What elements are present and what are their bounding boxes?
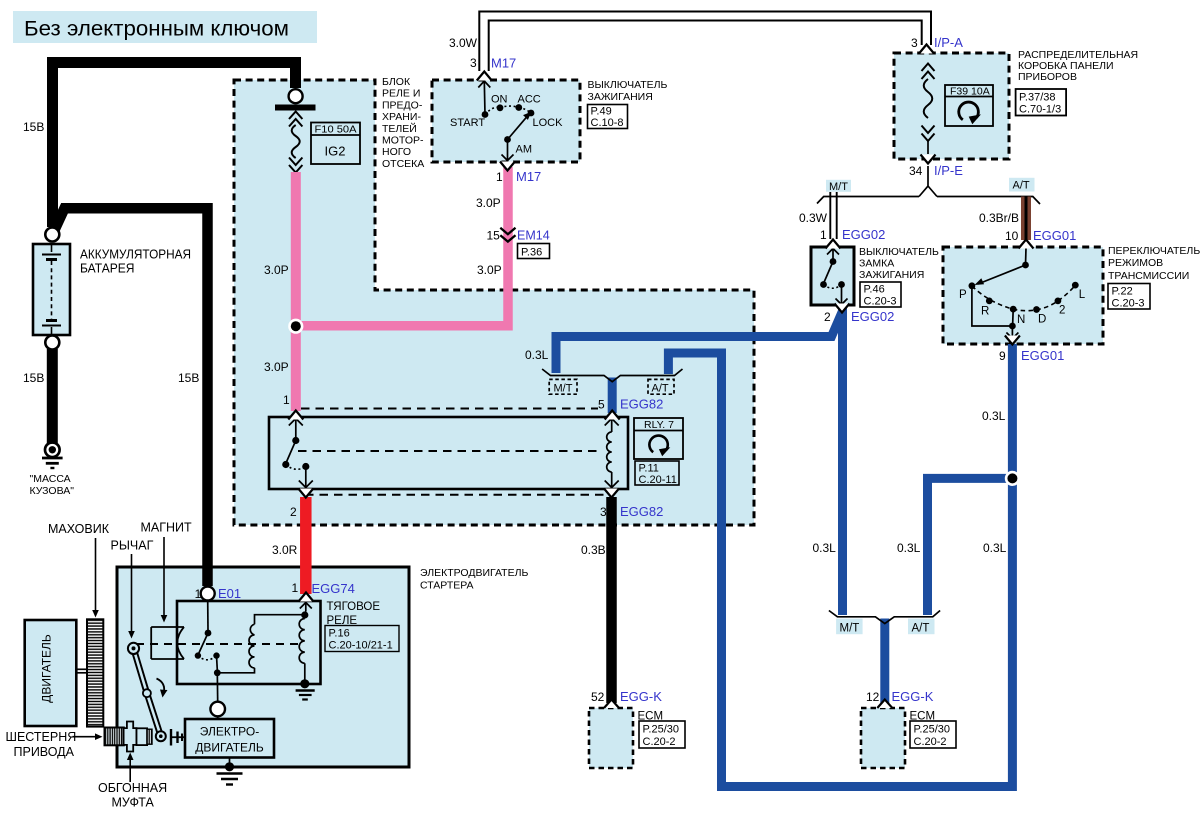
svg-text:МАХОВИК: МАХОВИК xyxy=(48,522,110,536)
battery АККУМУЛЯТОРНАЯ БАТАРЕЯ xyxy=(33,244,70,335)
body ground "МАССА КУЗОВА" xyxy=(30,443,75,498)
svg-text:ТЕЛЕЙ: ТЕЛЕЙ xyxy=(382,122,417,135)
svg-text:I/P-A: I/P-A xyxy=(934,35,963,50)
EGG82 relay switch xyxy=(282,419,313,488)
wire 0.3L fork to EGG82 pin 5 (blue) xyxy=(608,378,617,414)
pin 2 EGG82 label xyxy=(290,505,297,519)
svg-text:10: 10 xyxy=(1005,229,1019,243)
svg-text:C.20-10/21-1: C.20-10/21-1 xyxy=(329,640,393,652)
0.3W label xyxy=(799,211,828,225)
svg-text:0.3L: 0.3L xyxy=(813,541,837,555)
wire 0.3L EGG02 pin2 down to M/T fork (blue) xyxy=(838,308,847,615)
connector chevron I/P-A xyxy=(919,45,934,54)
pinion shaft yoke xyxy=(171,729,186,746)
svg-text:СТАРТЕРА: СТАРТЕРА xyxy=(420,580,474,592)
svg-text:C.70-1/3: C.70-1/3 xyxy=(1019,104,1061,116)
ignition lock switch box EGG02 (solid) xyxy=(811,247,854,305)
M/T option tag (lower) xyxy=(836,619,863,635)
connector chevron EGG02 pin2 xyxy=(835,304,850,313)
connector chevron M17 pin1 xyxy=(500,162,515,171)
svg-text:C.20-11: C.20-11 xyxy=(639,474,677,486)
svg-text:15В: 15В xyxy=(23,371,44,385)
EGG82 relay coil xyxy=(605,419,619,488)
connector chevron EGG82 pin1 xyxy=(288,411,303,420)
wire 0.3L junction to A/T fork (blue) xyxy=(885,478,1013,703)
svg-text:M17: M17 xyxy=(516,169,541,184)
junction node 0.3L xyxy=(1005,471,1020,486)
svg-text:ЭЛЕКТРО-: ЭЛЕКТРО- xyxy=(200,725,260,739)
svg-text:Без электронным ключом: Без электронным ключом xyxy=(24,17,289,41)
ignition switch ref box P.49 C.10-8 xyxy=(588,105,628,130)
svg-text:3: 3 xyxy=(911,36,918,50)
svg-text:A/T: A/T xyxy=(1013,180,1030,192)
svg-text:РЕЛЕ И: РЕЛЕ И xyxy=(382,88,420,100)
0.3B label xyxy=(581,543,606,557)
ignition switch label xyxy=(588,79,668,103)
ECM ref box left P.25/30 C.20-2 xyxy=(639,721,685,748)
pin 34 I/P-E label xyxy=(909,163,963,178)
svg-text:ДВИГАТЕЛЬ: ДВИГАТЕЛЬ xyxy=(40,634,54,703)
svg-text:3: 3 xyxy=(600,505,607,519)
wire 3.0R EGG82 pin2 to starter EGG74 (red) xyxy=(300,497,312,594)
svg-text:E01: E01 xyxy=(218,586,241,601)
ECM label right xyxy=(910,711,936,723)
flywheel МАХОВИК (ring gear) xyxy=(87,619,103,726)
svg-text:ПЕРЕКЛЮЧАТЕЛЬ: ПЕРЕКЛЮЧАТЕЛЬ xyxy=(1108,245,1200,257)
svg-text:ЗАЖИГАНИЯ: ЗАЖИГАНИЯ xyxy=(859,269,924,281)
svg-text:3.0P: 3.0P xyxy=(264,263,289,277)
svg-text:C.20-3: C.20-3 xyxy=(1112,298,1145,310)
svg-text:2: 2 xyxy=(1059,305,1065,317)
starter relay box EGG82 (solid) xyxy=(269,417,628,489)
EGG02 ref box P.46 C.20-3 xyxy=(860,282,901,308)
svg-text:15: 15 xyxy=(487,229,501,243)
ECM box left (dashed) xyxy=(589,708,633,768)
fork above EGG82 pin 5 (thin) xyxy=(542,369,682,382)
svg-text:1: 1 xyxy=(820,228,827,242)
3.0P wire labels xyxy=(264,196,502,374)
svg-text:БЛОК: БЛОК xyxy=(382,76,411,88)
svg-text:D: D xyxy=(1038,314,1046,326)
svg-text:M/T: M/T xyxy=(840,623,860,635)
svg-text:F39 10A: F39 10A xyxy=(950,86,990,98)
I/P junction box fusible link F39 xyxy=(922,64,935,155)
EGG01 label xyxy=(1108,245,1200,282)
connector EM14 (inline, double chevron) xyxy=(500,228,515,242)
instrument panel junction box I/P (dashed) xyxy=(894,53,1009,159)
svg-text:3.0P: 3.0P xyxy=(476,196,501,210)
svg-text:M/T: M/T xyxy=(829,181,848,193)
solenoid ground xyxy=(296,679,315,699)
svg-text:МАГНИТ: МАГНИТ xyxy=(141,521,193,535)
svg-text:EM14: EM14 xyxy=(517,229,550,243)
svg-text:1: 1 xyxy=(496,170,503,184)
svg-text:РЫЧАГ: РЫЧАГ xyxy=(111,539,154,553)
fuse F39 10A label box with breaker symbol xyxy=(945,85,993,126)
wire 0.3L EGG02 pin2 branch to EGG82 M/T connector (blue) xyxy=(556,311,843,373)
ОБГОННАЯ МУФТА label with leader xyxy=(98,753,167,810)
drive pinion ШЕСТЕРНЯ ПРИВОДА xyxy=(105,728,124,746)
engine box ДВИГАТЕЛЬ xyxy=(25,620,77,726)
svg-text:12: 12 xyxy=(866,690,880,704)
МАГНИТ label with leader xyxy=(141,521,193,623)
svg-text:EGG-K: EGG-K xyxy=(620,689,662,704)
svg-text:ТЯГОВОЕ: ТЯГОВОЕ xyxy=(327,601,381,613)
pin 3 I/P-A label xyxy=(911,35,963,50)
svg-text:34: 34 xyxy=(909,164,923,178)
pin 12 EGG-K label xyxy=(866,689,934,704)
I/P ref box P.37/38 C.70-1/3 xyxy=(1016,89,1067,116)
3.0R label xyxy=(272,543,298,557)
EM14 ref box P.36 xyxy=(518,244,550,259)
svg-text:9: 9 xyxy=(999,349,1006,363)
wire I/P-E fork to M/T and A/T (thin) xyxy=(817,166,1040,204)
wire battery positive to fuse F10 (15В) xyxy=(53,63,296,228)
svg-text:P.25/30: P.25/30 xyxy=(643,724,680,736)
svg-text:ВЫКЛЮЧАТЕЛЬ: ВЫКЛЮЧАТЕЛЬ xyxy=(859,246,939,258)
svg-text:RLY. 7: RLY. 7 xyxy=(644,419,674,431)
ignition switch box (dashed) xyxy=(432,80,580,162)
pin 2 EGG02 label xyxy=(824,309,894,324)
svg-text:0.3L: 0.3L xyxy=(897,541,921,555)
battery label xyxy=(80,247,191,276)
svg-text:EGG02: EGG02 xyxy=(842,227,885,242)
svg-text:C.20-2: C.20-2 xyxy=(914,736,947,748)
svg-text:EGG74: EGG74 xyxy=(312,581,355,596)
EGG82 ref box P.11 C.20-11 xyxy=(635,461,679,486)
svg-text:EGG01: EGG01 xyxy=(1021,348,1064,363)
solenoid pull-in coil xyxy=(217,615,304,673)
pin 1 E01 label xyxy=(195,586,242,601)
svg-text:ЗАЖИГАНИЯ: ЗАЖИГАНИЯ xyxy=(588,91,653,103)
svg-text:P.11: P.11 xyxy=(639,463,659,475)
title bar "Без электронным ключом" xyxy=(13,11,317,43)
svg-text:IG2: IG2 xyxy=(325,144,346,159)
svg-text:A/T: A/T xyxy=(912,623,930,635)
EGG82 dashed connector links xyxy=(298,409,607,495)
svg-text:15В: 15В xyxy=(23,120,44,134)
fusible link M17 circle connector xyxy=(275,89,316,110)
relay RLY.7 label box with symbol xyxy=(634,418,683,459)
svg-text:0.3L: 0.3L xyxy=(525,348,549,362)
connector chevron EGG74 xyxy=(299,593,314,602)
electric motor box ЭЛЕКТРОДВИГАТЕЛЬ xyxy=(185,719,274,758)
svg-text:EGG82: EGG82 xyxy=(620,397,663,412)
svg-text:P.22: P.22 xyxy=(1112,286,1133,298)
connector chevron EGG82 pin2 xyxy=(298,489,313,498)
shift lever РЫЧАГ xyxy=(128,643,166,741)
connector chevron M17 pin3 xyxy=(477,72,492,81)
ECM label left xyxy=(638,711,664,723)
svg-text:0.3L: 0.3L xyxy=(983,541,1007,555)
svg-text:ЗАМКА: ЗАМКА xyxy=(859,258,894,270)
svg-text:P.16: P.16 xyxy=(329,628,350,640)
EGG02 label xyxy=(859,246,939,281)
svg-text:МОТОР-: МОТОР- xyxy=(382,135,424,147)
connector chevron EGG82 pin3 xyxy=(604,489,619,498)
pin 52 EGG-K label xyxy=(591,689,662,704)
3.0W label xyxy=(449,36,478,50)
connector E01 circle xyxy=(201,587,215,601)
svg-text:C.20-3: C.20-3 xyxy=(864,296,897,308)
svg-text:EGG01: EGG01 xyxy=(1033,228,1076,243)
pin 1 EGG82 label xyxy=(283,393,290,407)
svg-text:ACC: ACC xyxy=(518,94,541,106)
EGG02 switch internals xyxy=(820,249,847,305)
connector chevron EGG01 pin9 xyxy=(1005,336,1020,345)
wire 0.3Br/B A/T to EGG01 pin10 (brown with black tracer) xyxy=(1021,197,1031,241)
svg-text:P.37/38: P.37/38 xyxy=(1019,92,1056,104)
solenoid ref box P.16 C.20-10/21-1 xyxy=(325,626,399,652)
svg-text:ШЕСТЕРНЯ: ШЕСТЕРНЯ xyxy=(6,730,77,744)
svg-text:КУЗОВА": КУЗОВА" xyxy=(30,485,75,497)
ТЯГОВОЕ РЕЛЕ label xyxy=(327,601,381,627)
motor ground xyxy=(217,758,243,785)
engine compartment relay/fuse box (dashed L-shaped box) xyxy=(234,80,754,525)
svg-text:ПРИВОДА: ПРИВОДА xyxy=(14,745,75,759)
lever rotation arrow xyxy=(157,679,168,698)
svg-text:L: L xyxy=(1079,289,1086,301)
svg-text:ВЫКЛЮЧАТЕЛЬ: ВЫКЛЮЧАТЕЛЬ xyxy=(588,79,668,91)
A/T connector tag (dashed) at EGG82 xyxy=(648,379,674,394)
connector chevron EGG02 pin1 xyxy=(826,240,841,249)
svg-text:P: P xyxy=(959,289,967,301)
svg-text:1: 1 xyxy=(283,393,290,407)
battery terminal circle top xyxy=(45,228,59,242)
svg-text:ПРИБОРОВ: ПРИБОРОВ xyxy=(1018,71,1077,83)
connector chevron EGG-K 12 xyxy=(877,700,892,709)
solenoid hold-in coil to ground xyxy=(299,603,312,681)
РЫЧАГ label with leader xyxy=(111,539,154,639)
connector chevron EGG01 pin10 xyxy=(1019,240,1034,249)
connector chevron I/P-E xyxy=(921,155,936,164)
EGG01 ref box P.22 C.20-3 xyxy=(1108,284,1150,310)
svg-text:1: 1 xyxy=(292,581,299,595)
svg-text:F10 50A: F10 50A xyxy=(315,124,357,136)
magnet yoke МАГНИТ xyxy=(151,627,184,659)
pin 10 EGG01 label xyxy=(1005,228,1076,243)
svg-text:3.0P: 3.0P xyxy=(477,263,502,277)
solenoid switch from E01 xyxy=(195,600,221,702)
svg-text:МУФТА: МУФТА xyxy=(112,796,155,810)
svg-text:РЕЖИМОВ: РЕЖИМОВ xyxy=(1108,257,1163,269)
ignition switch internals ON ACC START LOCK AM xyxy=(450,81,563,161)
svg-text:C.20-2: C.20-2 xyxy=(643,736,676,748)
wire 0.3W M/T to EGG02 pin1 (white, double line) xyxy=(830,192,836,239)
svg-text:2: 2 xyxy=(290,505,297,519)
pin 9 EGG01 label xyxy=(999,348,1064,363)
svg-text:EGG-K: EGG-K xyxy=(892,689,934,704)
starter motor box (solid) xyxy=(117,567,409,767)
wire 3.0W ignition to I/P-A (white, double line) xyxy=(479,12,931,72)
svg-text:АККУМУЛЯТОРНАЯ: АККУМУЛЯТОРНАЯ xyxy=(80,247,191,262)
svg-text:P.36: P.36 xyxy=(521,247,542,259)
svg-text:3: 3 xyxy=(470,56,477,70)
ECM box right (dashed) xyxy=(861,708,905,768)
wire battery negative to body ground (15В) xyxy=(47,349,58,443)
svg-text:LOCK: LOCK xyxy=(533,117,564,129)
svg-text:AM: AM xyxy=(516,144,533,156)
wire 0.3B EGG82 pin3 to ECM EGG-K 52 (black) xyxy=(606,497,617,703)
svg-text:R: R xyxy=(981,306,989,318)
svg-text:ОТСЕКА: ОТСЕКА xyxy=(382,158,424,170)
starter label ЭЛЕКТРОДВИГАТЕЛЬ СТАРТЕРА xyxy=(420,567,528,592)
svg-text:БАТАРЕЯ: БАТАРЕЯ xyxy=(80,261,135,276)
svg-text:ДВИГАТЕЛЬ: ДВИГАТЕЛЬ xyxy=(195,741,264,755)
svg-text:15В: 15В xyxy=(178,371,199,385)
svg-text:3.0R: 3.0R xyxy=(272,543,298,557)
svg-text:0.3B: 0.3B xyxy=(581,543,606,557)
M/T connector tag (dashed) at EGG82 xyxy=(549,379,577,394)
A/T option tag (upper) xyxy=(1009,178,1035,192)
svg-text:EGG02: EGG02 xyxy=(851,309,894,324)
solenoid mechanical dashed axis xyxy=(136,643,304,645)
svg-text:3.0W: 3.0W xyxy=(449,36,478,50)
0.3L labels xyxy=(525,348,1007,555)
15В wire labels xyxy=(23,120,199,385)
wire 0.3L A/T loop: EGG82 A/T connector right and down around to EGG01 pin9 (blue) xyxy=(668,344,1012,787)
wire 3.0P branch to EM14 (pink) xyxy=(296,167,508,326)
A/T option tag (lower) xyxy=(908,619,935,635)
battery terminal circle bottom xyxy=(45,336,59,350)
ШЕСТЕРНЯ ПРИВОДА label with leader xyxy=(6,730,103,759)
pin 1 M17 label xyxy=(496,169,541,184)
pin 3 M17 label xyxy=(470,56,516,71)
svg-text:ТРАНСМИССИИ: ТРАНСМИССИИ xyxy=(1108,270,1189,282)
pin 1 EGG02 label xyxy=(820,227,885,242)
I/P box label xyxy=(1018,49,1138,83)
connector chevron EGG82 pin5 xyxy=(605,411,620,420)
svg-text:ПРЕДО-: ПРЕДО- xyxy=(382,99,423,111)
svg-text:0.3Br/B: 0.3Br/B xyxy=(979,211,1019,225)
svg-text:ХРАНИ-: ХРАНИ- xyxy=(382,111,421,123)
overrunning clutch ОБГОННАЯ МУФТА xyxy=(124,722,152,752)
wire 3.0P fuse IG2 to EGG82 pin 1 (pink) xyxy=(291,172,301,411)
svg-text:2: 2 xyxy=(824,310,831,324)
svg-text:EGG82: EGG82 xyxy=(620,504,663,519)
transaxle range switch internals P R N D 2 L xyxy=(959,248,1086,339)
wire battery positive to starter E01 (15В) xyxy=(54,208,208,586)
svg-text:"МАССА: "МАССА xyxy=(30,473,71,485)
svg-text:N: N xyxy=(1017,314,1025,326)
pin 3 EGG82 label xyxy=(600,504,663,519)
svg-text:P.49: P.49 xyxy=(591,106,612,118)
svg-text:1: 1 xyxy=(195,587,202,601)
svg-text:0.3W: 0.3W xyxy=(799,211,828,225)
svg-text:M/T: M/T xyxy=(554,383,573,395)
svg-text:START: START xyxy=(450,117,485,129)
motor terminal circle xyxy=(210,702,225,719)
svg-text:5: 5 xyxy=(598,398,605,412)
EM14 labels xyxy=(487,229,550,243)
svg-text:ON: ON xyxy=(491,94,508,106)
svg-text:0.3L: 0.3L xyxy=(982,409,1006,423)
connector chevron EGG-K 52 xyxy=(604,700,619,709)
svg-text:52: 52 xyxy=(591,690,605,704)
svg-text:M17: M17 xyxy=(491,56,516,71)
pin 1 EGG74 label xyxy=(292,581,355,596)
M/T option tag (upper) xyxy=(826,180,851,193)
transaxle range switch box EGG01 (dashed) xyxy=(943,247,1103,344)
svg-text:C.10-8: C.10-8 xyxy=(591,117,624,129)
svg-text:3.0P: 3.0P xyxy=(264,360,289,374)
svg-text:P.46: P.46 xyxy=(864,284,885,296)
solenoid (ТЯГОВОЕ РЕЛЕ) box xyxy=(177,601,321,684)
МАХОВИК label with leader xyxy=(48,522,110,618)
ECM ref box right P.25/30 C.20-2 xyxy=(910,721,956,748)
fork above EGG-K 12 (thin) xyxy=(829,611,940,624)
fuse F10 50A IG2 fusible link symbol xyxy=(289,112,302,173)
svg-text:A/T: A/T xyxy=(652,383,669,395)
svg-text:НОГО: НОГО xyxy=(382,146,411,158)
svg-text:ОБГОННАЯ: ОБГОННАЯ xyxy=(98,781,167,795)
svg-text:ЭЛЕКТРОДВИГАТЕЛЬ: ЭЛЕКТРОДВИГАТЕЛЬ xyxy=(420,567,528,579)
БЛОК РЕЛЕ И ПРЕДОХРАНИТЕЛЕЙ МОТОРНОГО ОТСЕКА label xyxy=(382,76,424,170)
engine to flywheel coupling xyxy=(76,669,87,673)
svg-text:I/P-E: I/P-E xyxy=(934,163,963,178)
fuse F10 50A IG2 label box xyxy=(311,123,360,165)
pin 5 EGG82 label xyxy=(598,397,663,412)
svg-text:P.25/30: P.25/30 xyxy=(914,724,951,736)
0.3Br/B label xyxy=(979,211,1019,225)
junction node 3.0P xyxy=(288,319,303,334)
